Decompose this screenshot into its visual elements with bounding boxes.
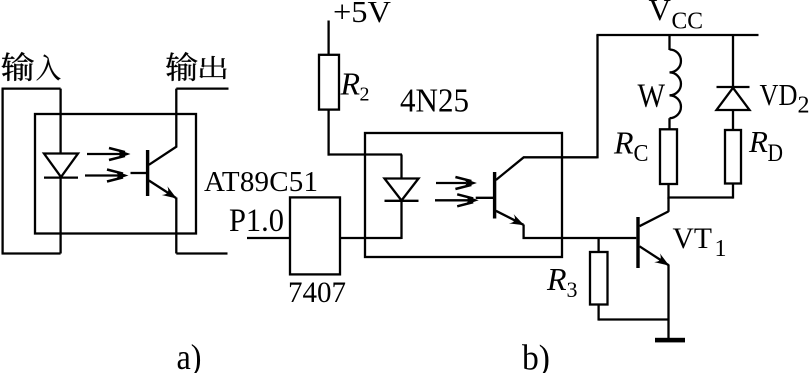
svg-text:AT89C51: AT89C51 — [204, 166, 318, 198]
wire: input top lead — [2, 87, 61, 89]
svg-text:R: R — [340, 66, 361, 102]
transistor VT1 collector wire — [667, 198, 669, 212]
wire RD bottom — [732, 184, 734, 199]
phototransistor (b) collector — [496, 157, 598, 180]
transistor VT1 emitter wire — [667, 265, 669, 339]
label 输入 (input) — [2, 52, 61, 81]
wire: input bottom lead — [2, 252, 61, 254]
LED D_a anode wire — [59, 89, 61, 154]
svg-text:V: V — [649, 0, 672, 27]
wire R3 bottom — [597, 305, 599, 321]
transistor VT1 emitter diagonal — [640, 246, 669, 265]
light arrow 1 (b) — [436, 182, 466, 184]
wire corner to LED (b) — [328, 153, 403, 155]
wire RC-RD junction — [669, 196, 734, 198]
wire 7407 to LED (b) — [340, 237, 402, 239]
label 输出 (output) — [166, 52, 226, 81]
LED D_a cathode wire — [59, 178, 61, 254]
resistor RC body — [660, 129, 677, 184]
coil W bottom wire — [668, 118, 670, 129]
phototransistor (a) emitter — [149, 181, 176, 199]
wire P1.0 to 7407 — [247, 237, 290, 239]
light arrow 2 (a) — [85, 174, 118, 176]
svg-text:VT: VT — [673, 222, 713, 255]
7407 buffer box — [290, 197, 340, 274]
Vcc rail — [596, 34, 758, 36]
ground — [655, 338, 685, 343]
phototransistor (a) collector — [149, 89, 176, 165]
wire down to LED (b) — [400, 155, 402, 179]
svg-text:2: 2 — [798, 93, 810, 119]
LED D_b cathode bar — [385, 200, 419, 202]
wire R2 to corner — [327, 110, 329, 156]
svg-text:4N25: 4N25 — [400, 83, 469, 120]
relay coil W — [670, 50, 681, 119]
resistor R2 body — [319, 55, 339, 110]
svg-text:+5V: +5V — [333, 0, 392, 29]
svg-text:R: R — [613, 125, 634, 161]
wire base junction to R3 — [597, 238, 599, 252]
svg-text:CC: CC — [672, 9, 704, 35]
LED D_b cathode wire — [400, 201, 402, 239]
optocoupler 4N25 box — [365, 133, 562, 257]
light arrow 1 (a) — [87, 153, 120, 155]
svg-text:b): b) — [522, 338, 550, 373]
svg-text:1: 1 — [715, 236, 727, 262]
phototransistor (a) base bar — [146, 150, 149, 196]
diode VD2 wire from rail — [732, 35, 734, 87]
diode VD2 triangle — [717, 88, 750, 110]
optocoupler box (a) — [35, 114, 196, 234]
phototransistor (a) emitter wire down — [175, 198, 177, 254]
phototransistor (b) emitter — [496, 211, 524, 225]
svg-text:3: 3 — [567, 277, 578, 302]
svg-text:D: D — [768, 140, 784, 167]
svg-text:R: R — [748, 124, 768, 159]
phototransistor (b) base lead — [476, 197, 493, 199]
transistor VT1 collector diagonal — [640, 211, 669, 226]
svg-text:C: C — [634, 141, 649, 167]
phototransistor (b) base bar — [493, 172, 496, 219]
svg-text:2: 2 — [360, 84, 370, 106]
wire 4N25 collector to Vcc rail — [596, 35, 598, 158]
output top lead (a) — [176, 87, 228, 89]
svg-text:W: W — [638, 78, 666, 115]
svg-text:P1.0: P1.0 — [229, 203, 284, 239]
light arrow 2 (b) — [435, 199, 468, 201]
LED D_a triangle — [44, 154, 78, 178]
wire: input left bracket vertical — [1, 89, 3, 254]
emitter wire to VT1 base — [524, 225, 637, 239]
wire +5V to R2 — [327, 21, 329, 55]
phototransistor (a) base lead — [131, 172, 147, 174]
svg-text:7407: 7407 — [288, 276, 346, 309]
output bottom lead (a) — [176, 252, 227, 254]
resistor RD body — [725, 130, 741, 184]
transistor VT1 base bar — [636, 217, 639, 268]
svg-text:VD: VD — [760, 77, 798, 112]
diode VD2 anode wire — [732, 110, 734, 130]
LED D_a cathode bar — [44, 176, 78, 178]
wire RC bottom — [667, 184, 669, 199]
relay coil W wire from rail — [668, 35, 670, 50]
resistor R3 body — [590, 252, 608, 305]
LED D_b triangle — [385, 179, 419, 201]
svg-text:a): a) — [177, 337, 202, 373]
diode VD2 cathode bar — [717, 86, 750, 88]
wire R3 to emitter — [599, 318, 669, 320]
svg-text:R: R — [546, 261, 567, 297]
